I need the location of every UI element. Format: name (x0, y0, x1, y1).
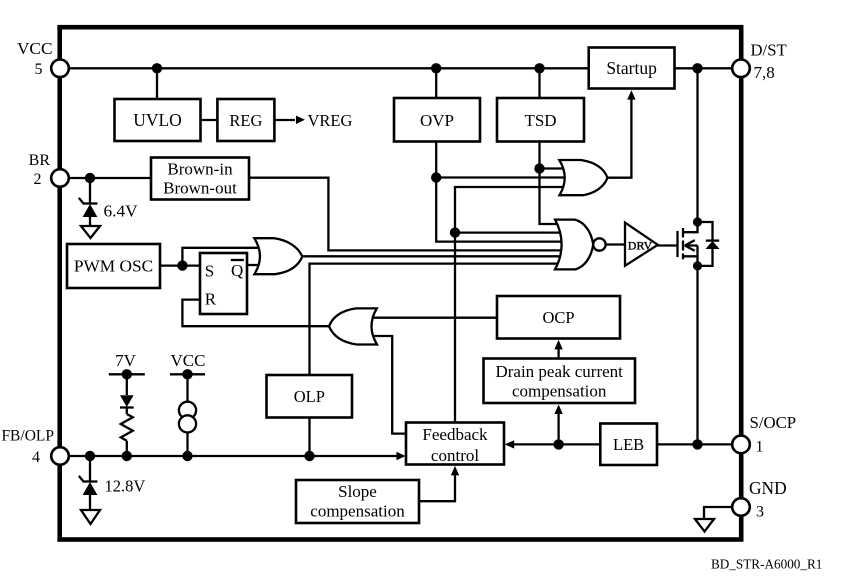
svg-text:VCC: VCC (17, 39, 53, 58)
wire: TSD to OR2 input (540, 167, 565, 169)
svg-text:compensation: compensation (310, 502, 405, 521)
wire: OLP top to NOR input (310, 264, 562, 375)
wire: NOR output to DRV (606, 243, 625, 245)
block Slope compensation (296, 480, 419, 523)
svg-text:FB/OLP: FB/OLP (1, 428, 54, 445)
node: drain junction (693, 217, 702, 226)
svg-text:Slope: Slope (338, 482, 377, 501)
node: S/OCP junction (692, 439, 702, 449)
node: VCC rail junction to OVP (431, 63, 441, 73)
svg-text:BD_STR-A6000_R1: BD_STR-A6000_R1 (711, 557, 822, 572)
wire: OVP to OR2 input (436, 176, 564, 178)
wire: VCC top rail (60, 67, 589, 69)
svg-text:Brown-in: Brown-in (167, 160, 233, 179)
ground below 6.4V zener (81, 226, 100, 238)
node: OVP branch junction (431, 172, 441, 182)
node: startup output junction (692, 63, 702, 73)
wire: TSD vertical to OR2 and NOR (540, 142, 562, 225)
block OVP (394, 98, 480, 142)
node: TSD branch junction (534, 163, 544, 173)
svg-text:UVLO: UVLO (133, 110, 182, 130)
wire: OR2 output up to Startup (608, 99, 631, 178)
node: source junction (693, 261, 702, 270)
current source I1 (VCC) (170, 369, 205, 456)
node: OLP junction on FB rail (304, 451, 314, 461)
block REG (217, 99, 274, 141)
wire: FB/OLP rail (60, 455, 397, 457)
svg-text:PWM OSC: PWM OSC (74, 257, 153, 276)
svg-text:Drain peak current: Drain peak current (495, 362, 623, 381)
node: VCC rail junction to TSD (534, 63, 544, 73)
latch U6 (SR latch) (200, 253, 247, 314)
wire: DRV to MOSFET gate (658, 244, 677, 246)
svg-text:OLP: OLP (294, 387, 325, 406)
svg-text:DRV: DRV (628, 238, 653, 252)
pin 1 S/OCP (732, 436, 750, 454)
node: 12.8V zener junction (85, 451, 95, 461)
svg-text:Feedback: Feedback (422, 425, 488, 444)
svg-text:1: 1 (756, 439, 764, 456)
node: feedback-NOR junction (450, 227, 460, 237)
wire: REG to VREG arrow (274, 119, 295, 121)
svg-text:VCC: VCC (171, 351, 206, 370)
svg-text:7V: 7V (115, 351, 137, 370)
svg-text:3: 3 (756, 504, 764, 521)
svg-text:5: 5 (35, 61, 43, 78)
node: BR zener junction (85, 173, 95, 183)
wire: Startup to D/ST (675, 67, 742, 69)
pin 4 FB/OLP (51, 447, 69, 465)
svg-text:Startup: Startup (606, 58, 657, 78)
block Startup (589, 48, 675, 89)
ground at GND pin (695, 507, 733, 532)
buffer DRV (625, 223, 658, 266)
block Brown-in/Brown-out (151, 158, 249, 200)
IC outer border (60, 27, 742, 539)
block OCP (497, 296, 620, 339)
zener D3 12.8V (79, 456, 98, 510)
wire: NOR input from feedback node (455, 231, 561, 233)
block Feedback control (406, 423, 504, 465)
wire: UVLO drop (156, 68, 158, 99)
svg-text:7,8: 7,8 (754, 63, 775, 82)
block Drain peak current compensation (484, 359, 636, 404)
node: VCC rail junction to UVLO (152, 63, 162, 73)
svg-text:Q: Q (231, 261, 243, 280)
svg-text:OVP: OVP (420, 111, 454, 130)
svg-text:D/ST: D/ST (751, 41, 787, 60)
block TSD (497, 98, 584, 142)
wire: feedback to OLP OR input (371, 336, 406, 434)
svg-text:TSD: TSD (524, 111, 556, 130)
svg-text:12.8V: 12.8V (105, 477, 146, 496)
svg-text:REG: REG (229, 111, 262, 130)
node: VCC source junction (182, 451, 192, 461)
or-gate U5 (OLP OR, output left) (329, 308, 377, 344)
svg-text:compensation: compensation (512, 382, 607, 401)
wire: OVP drop (435, 68, 437, 98)
svg-text:Brown-out: Brown-out (163, 179, 237, 198)
or-gate U3 (OVP/TSD OR) (559, 160, 607, 195)
wire: branch to OR1 top input (182, 248, 259, 266)
block UVLO (115, 99, 201, 141)
ground below 12.8V zener (81, 510, 100, 524)
nor-gate U4 (main PWM NOR) (555, 220, 593, 270)
wire: LEB to S/OCP pin (657, 443, 741, 445)
svg-text:GND: GND (749, 478, 787, 498)
diode D4 with resistor R1 (7V clamp branch) (109, 369, 145, 456)
pin 7,8 D/ST (732, 60, 750, 78)
svg-text:OCP: OCP (542, 308, 574, 327)
pin 5 VCC (51, 60, 69, 78)
svg-text:control: control (431, 446, 479, 465)
svg-text:4: 4 (32, 449, 40, 466)
wire: OR1 output to NOR (301, 255, 561, 257)
wire: source down to S/OCP rail (696, 266, 698, 445)
wire: feedback vertical to NOR and OR2 (455, 187, 564, 423)
svg-text:R: R (205, 289, 217, 308)
svg-text:S: S (205, 261, 214, 280)
svg-text:2: 2 (34, 171, 42, 188)
node: 7V branch junction (122, 451, 132, 461)
wire: slope comp to feedback control (419, 474, 455, 501)
wire: OLP bottom to FB rail (308, 418, 310, 457)
wire: R input from OLP OR gate (182, 300, 330, 327)
wire: up arrow to drain peak comp (557, 413, 559, 445)
pin 3 GND (732, 498, 750, 516)
pin 2 BR (51, 169, 69, 187)
wire: right vertical startup to drain (696, 68, 698, 222)
svg-text:6.4V: 6.4V (104, 202, 139, 221)
wire: LEB to feedback control arrow (514, 443, 600, 445)
transistor Q1 (power MOSFET) (678, 222, 698, 266)
block PWM OSC (67, 244, 160, 288)
wire: BR rail (60, 177, 151, 179)
wire: drain peak comp to OCP arrow (557, 348, 559, 359)
svg-text:VREG: VREG (308, 111, 353, 130)
wire: Qbar to OR1 (247, 264, 260, 266)
node: PWM OSC output junction (177, 260, 187, 270)
node: drain peak tap junction (553, 439, 563, 449)
zener D2 6.4V (79, 178, 98, 226)
block LEB (600, 424, 657, 466)
diode D1 (MOSFET body diode) (698, 222, 720, 266)
wire: OCP to OLP OR input (371, 317, 497, 319)
wire: OVP vertical to OR2 and NOR (436, 142, 561, 242)
svg-text:LEB: LEB (613, 435, 644, 454)
wire: TSD drop (538, 68, 540, 98)
wire: PWM OSC output to S (160, 264, 200, 266)
block OLP (267, 375, 353, 418)
svg-text:S/OCP: S/OCP (750, 413, 797, 432)
wire: UVLO-REG link (201, 119, 218, 121)
or-gate U2 (latch OR) (254, 238, 302, 274)
wire: Brown-out output (249, 178, 561, 251)
svg-text:BR: BR (29, 152, 51, 169)
